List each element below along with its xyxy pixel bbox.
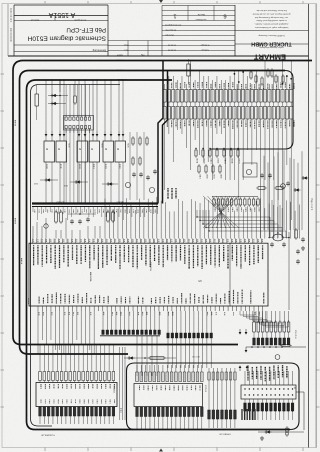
bundle to latch xyxy=(167,311,213,368)
band stub labels xyxy=(35,210,155,214)
MCU U5 top pin labels xyxy=(34,245,263,269)
bus labels xyxy=(115,58,230,81)
fan wires to latch xyxy=(240,311,289,327)
CPU U1 pin row lower xyxy=(163,107,293,120)
bundle to RAM xyxy=(38,311,94,354)
right components C39 xyxy=(294,237,305,340)
bottom shield enclosure xyxy=(127,363,300,430)
U1 upper stubs and parts xyxy=(165,61,293,90)
left sensor parts xyxy=(35,80,76,120)
inner drawing frame right border xyxy=(309,4,317,448)
CPU U1 block frame xyxy=(172,71,293,150)
crystal Y1 xyxy=(268,228,300,310)
CPU U1 pin row upper xyxy=(163,90,293,103)
resistor network RN2 xyxy=(239,311,290,345)
wires above MCU xyxy=(105,197,299,239)
crossing wire fan xyxy=(203,196,239,228)
wires bus to drivers xyxy=(45,79,124,203)
MCU left feed wires xyxy=(33,218,100,239)
U1 pin labels lower xyxy=(167,121,294,129)
MCU inner reference text xyxy=(89,262,202,282)
driver pair U2 xyxy=(44,131,70,203)
top row junction wire xyxy=(245,344,306,359)
MCU U5 top pin stubs xyxy=(33,239,262,244)
mid right small parts between CPU and MCU xyxy=(195,148,309,192)
bundle to ROM xyxy=(100,311,160,376)
dark label strip xyxy=(242,409,255,420)
MCU U5 body xyxy=(29,243,268,306)
RAM U6 inner labels xyxy=(41,384,115,436)
right labels above latch xyxy=(248,365,287,381)
driver pair U4 xyxy=(103,131,129,203)
CPU U1 outline xyxy=(158,61,163,204)
latch U8 xyxy=(241,371,296,420)
driver pair U3 xyxy=(77,131,103,203)
power bus VCC rail xyxy=(13,61,312,345)
bus side labels xyxy=(168,188,176,199)
enclosure interior wires xyxy=(208,368,237,428)
vertical reference component xyxy=(187,59,190,84)
power bus DGND rail xyxy=(27,80,291,430)
title block: left margin strip xyxy=(8,4,11,56)
title block: drawing number section xyxy=(8,5,309,56)
wires right of RAM xyxy=(120,347,126,420)
latch U8 right tail xyxy=(258,392,304,440)
U7 inner labels xyxy=(140,386,200,391)
DIP footprint K1 xyxy=(64,113,94,133)
middle component column xyxy=(130,132,157,200)
MCU U5 bottom stubs xyxy=(38,306,263,311)
MCU U5 bottom pin labels xyxy=(39,290,264,304)
band stubs down xyxy=(33,207,158,220)
U1 pin labels upper xyxy=(167,82,294,90)
right area verticals xyxy=(264,150,302,232)
auxiliary rail xyxy=(31,85,121,427)
parts above enclosure xyxy=(124,355,248,371)
parts under band xyxy=(44,210,115,228)
title block: company section TUCKER GMBH / EMHART xyxy=(235,9,309,62)
rail tick labels xyxy=(15,120,29,304)
U1 lower stubs xyxy=(165,119,292,239)
paper scan texture xyxy=(0,0,1,1)
U1 inter-row wires xyxy=(165,102,292,106)
lower feed bus band xyxy=(32,201,158,207)
ROM U7 xyxy=(134,365,206,429)
MCU U5 top pin numbers xyxy=(34,239,263,242)
under-MCU stub labels xyxy=(39,312,259,316)
RAM U6 xyxy=(36,344,117,424)
bend link wires xyxy=(196,210,286,238)
bottom bus line xyxy=(219,433,231,436)
lower-left transistor row xyxy=(33,178,154,192)
resistor comb above MCU xyxy=(212,197,259,213)
power bus VDD rail xyxy=(20,71,286,355)
title block: revision table xyxy=(108,5,235,56)
